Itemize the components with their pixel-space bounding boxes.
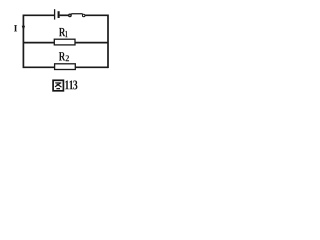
label R1 sub1 (65, 31, 67, 37)
switch blade (71, 13, 83, 16)
battery cell (short thick plate) (58, 11, 60, 18)
wire top-left segment (23, 14, 54, 16)
wire left side (22, 15, 24, 69)
switch S left terminal (69, 14, 71, 16)
wire switch to top-right corner (85, 14, 108, 16)
label R2 R (59, 52, 65, 60)
resistor R2 (55, 64, 76, 70)
label I (14, 25, 17, 31)
switch S right terminal (82, 14, 85, 17)
caption 113 (65, 80, 77, 89)
resistor R1 (54, 39, 75, 45)
current arrow I (down) on left wire (22, 26, 25, 31)
caption hanzi TU (figure) drawn as glyph (53, 80, 63, 91)
label R1 R (59, 28, 65, 36)
wire right side (107, 15, 109, 69)
wire battery to switch (60, 14, 69, 16)
wire R1 branch (23, 42, 108, 44)
battery cell (long plate) (54, 9, 56, 19)
label R2 sub2 (66, 55, 69, 61)
wire bottom (R2 branch) (23, 66, 108, 68)
